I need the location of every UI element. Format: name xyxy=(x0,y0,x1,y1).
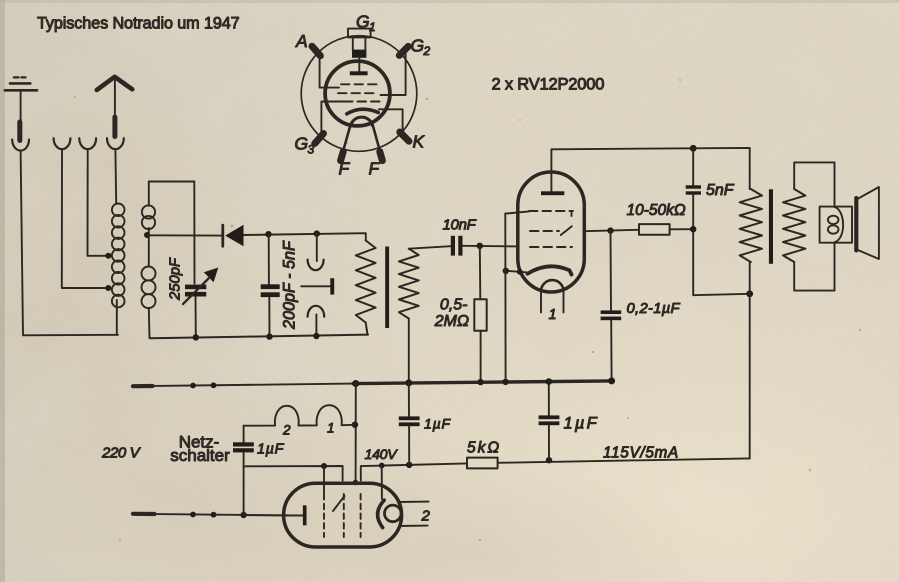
speaker diaphragm bar xyxy=(854,198,858,250)
svg-text:1: 1 xyxy=(327,421,335,436)
svg-text:10-50kΩ: 10-50kΩ xyxy=(627,202,686,219)
socket cup 4 antenna xyxy=(107,138,124,149)
capacitor C5 0.2-1uF xyxy=(601,231,622,381)
junction rail phones xyxy=(313,333,319,339)
label 140V xyxy=(365,447,399,463)
wire earth down xyxy=(21,151,118,335)
junction filament top xyxy=(379,463,385,469)
socket cup 3 xyxy=(79,138,96,149)
socket pin F2 xyxy=(380,152,383,161)
C1 arrow xyxy=(183,268,218,305)
V1 cathode arc xyxy=(528,266,572,274)
junction C8 xyxy=(546,457,552,463)
svg-text:F: F xyxy=(369,159,381,179)
bus junction 2 xyxy=(211,382,217,388)
ground symbol xyxy=(5,77,37,121)
T2 core bar xyxy=(769,189,773,263)
label 250pF xyxy=(168,257,184,301)
V1 cathode junction b xyxy=(517,269,523,275)
svg-text:K: K xyxy=(413,132,426,152)
socket pin F1 xyxy=(341,152,344,161)
V2 filament circle xyxy=(385,505,402,522)
speaker cone xyxy=(858,187,879,259)
socket label F1 xyxy=(339,159,351,179)
svg-text:0,2-1µF: 0,2-1µF xyxy=(627,301,681,317)
V2 lead lower xyxy=(400,525,428,527)
V2 label 2 xyxy=(421,508,431,525)
V1 label 1 xyxy=(549,307,557,323)
svg-text:1µF: 1µF xyxy=(257,442,285,458)
mains junction C6 xyxy=(240,512,246,518)
socket pin G3 xyxy=(315,134,324,144)
wire tap to diode xyxy=(147,234,223,236)
capacitor C3 10nF xyxy=(451,236,463,256)
mains lower wire xyxy=(133,514,303,516)
socket label A xyxy=(295,31,308,51)
socket grid G3 dashes xyxy=(341,83,377,85)
tuning coil L2 upper xyxy=(142,182,155,230)
V2 anode bar xyxy=(303,505,307,525)
V2 anode lead xyxy=(247,514,303,516)
resistor R1 0.5-2M xyxy=(474,246,486,382)
antenna plug pin xyxy=(112,117,117,137)
ground plug pin xyxy=(17,122,22,141)
svg-text:1: 1 xyxy=(549,307,557,323)
bus junction heater xyxy=(352,380,359,387)
wire 140V left xyxy=(244,466,343,481)
headphone jack upper contact xyxy=(308,234,324,271)
label 5k xyxy=(467,440,501,457)
label C6 xyxy=(257,442,285,458)
capacitor C8 1uF xyxy=(539,382,560,461)
wire diode to transformer xyxy=(244,233,366,240)
socket cup 2 xyxy=(54,138,71,149)
svg-text:G: G xyxy=(356,12,370,32)
label 10nF xyxy=(443,217,477,234)
svg-text:A: A xyxy=(295,31,308,51)
V1 cathode lead xyxy=(506,271,528,273)
wire G3-cathode down xyxy=(504,214,506,382)
capacitor C6 1uF xyxy=(233,426,254,515)
socket filament arc xyxy=(351,117,373,126)
title text xyxy=(37,15,240,33)
socket pin G2 xyxy=(399,46,408,55)
V2 lead upper xyxy=(399,501,429,503)
socket anode bar xyxy=(350,58,368,76)
label 5nF xyxy=(706,182,735,199)
svg-text:5nF: 5nF xyxy=(706,182,735,199)
label bump2 xyxy=(282,423,291,438)
T1 primary winding xyxy=(356,241,376,335)
socket filament legs xyxy=(343,124,381,153)
bus junction C8 xyxy=(546,378,553,385)
wire antenna to coil xyxy=(114,150,117,204)
V1 anode xyxy=(541,149,564,195)
socket label K xyxy=(413,132,426,152)
label 200pF-5nF xyxy=(281,240,299,330)
heater envelope junction xyxy=(353,480,359,486)
svg-text:F: F xyxy=(339,159,351,179)
label R1 xyxy=(434,297,469,331)
variable capacitor C1 250pF plates xyxy=(185,285,206,337)
T2 primary bottom junction xyxy=(746,290,753,297)
tube V2 envelope xyxy=(284,483,402,547)
label C8 xyxy=(564,415,599,433)
wire 115V xyxy=(498,458,750,462)
svg-text:3: 3 xyxy=(308,143,315,157)
V1 filament arc xyxy=(541,280,564,290)
svg-text:Typisches Notradio um 1947: Typisches Notradio um 1947 xyxy=(37,15,240,33)
speaker coil box xyxy=(820,207,852,243)
V2 filament arc xyxy=(378,500,385,527)
svg-text:2MΩ: 2MΩ xyxy=(434,313,469,330)
tuning coil L2 wire mid xyxy=(148,228,150,267)
paper specks xyxy=(74,79,861,541)
wire cup3 to tap xyxy=(88,150,106,256)
V2 grid dashes 3 xyxy=(360,494,362,537)
svg-text:schalter: schalter xyxy=(170,446,230,465)
capacitor C7 1uF xyxy=(399,383,420,465)
wire T2 sec top xyxy=(794,162,834,206)
svg-text:1µF: 1µF xyxy=(424,416,451,432)
heater bumps junction xyxy=(352,422,358,428)
svg-text:115V/5mA: 115V/5mA xyxy=(603,445,679,462)
junction rail C1 xyxy=(193,334,199,340)
socket grid G1 dashes xyxy=(344,101,380,103)
tube type label 2 x RV12P2000 xyxy=(492,76,605,94)
label Netzschalter xyxy=(170,433,230,466)
main bus thin part xyxy=(133,384,353,387)
junction rail C2 xyxy=(266,333,272,339)
svg-text:2 x RV12P2000: 2 x RV12P2000 xyxy=(492,76,605,94)
junction C7 xyxy=(406,462,412,468)
T2 primary winding xyxy=(740,189,762,262)
V2 grid dashes 2 xyxy=(343,494,345,537)
V1 grid G3 dashes xyxy=(505,211,573,216)
capacitor C4 5nF xyxy=(686,148,750,295)
diode D1 xyxy=(223,225,244,246)
svg-text:2: 2 xyxy=(421,508,431,525)
svg-text:1: 1 xyxy=(369,20,376,34)
socket label G1 xyxy=(356,12,376,35)
svg-text:G: G xyxy=(411,36,425,56)
junction diode C2 xyxy=(265,231,271,237)
wire C3 to grid xyxy=(463,245,519,248)
anode wire top xyxy=(551,148,749,189)
label C7 xyxy=(424,416,451,432)
wire filament top down xyxy=(381,466,383,500)
socket label G3 xyxy=(295,134,315,157)
socket tube inner circle xyxy=(325,61,390,126)
label C5 xyxy=(627,301,681,317)
wire g1 V2 down xyxy=(323,466,325,493)
screen wire xyxy=(584,230,639,231)
socket label G2 xyxy=(411,36,431,59)
mains junction 4 xyxy=(211,512,217,518)
junction anode 5nF xyxy=(690,145,697,152)
socket outer circle xyxy=(301,36,417,152)
tube V1 envelope xyxy=(518,172,585,292)
wire T2 sec bottom xyxy=(794,243,834,291)
socket wire A to anode xyxy=(320,55,339,88)
junction g1 V2 xyxy=(321,463,327,469)
tap junction upper xyxy=(105,253,111,259)
junction diode phones xyxy=(314,230,320,236)
label 220V xyxy=(101,445,142,462)
svg-text:220 V: 220 V xyxy=(101,445,142,462)
tuning coil L2 lower xyxy=(142,267,156,339)
main bus stub xyxy=(133,384,153,388)
label bump1 xyxy=(327,421,335,436)
V2 grid dashes 1 xyxy=(323,494,325,537)
coil tap junction xyxy=(144,232,150,238)
label 115V-5mA xyxy=(603,445,679,462)
T1 secondary winding xyxy=(399,249,419,383)
T1 core bar xyxy=(385,247,389,329)
svg-text:5kΩ: 5kΩ xyxy=(467,440,501,457)
socket grid G2 dashes xyxy=(338,92,374,94)
label 10-50k xyxy=(627,202,686,219)
bus junction R1 xyxy=(477,379,483,385)
antenna coil L1 xyxy=(112,204,125,335)
wire T2 primary down xyxy=(749,262,751,458)
svg-text:0,5-: 0,5- xyxy=(440,297,468,314)
svg-text:200pF - 5nF: 200pF - 5nF xyxy=(281,240,299,330)
junction screen C5 xyxy=(607,227,613,233)
T2 secondary winding xyxy=(783,189,805,262)
svg-text:10nF: 10nF xyxy=(443,217,477,234)
socket pin A xyxy=(312,46,320,56)
heater wire vertical xyxy=(355,384,357,482)
svg-text:2: 2 xyxy=(282,423,291,438)
socket label F2 xyxy=(369,159,381,179)
bus junction 1 xyxy=(190,383,196,389)
mains junction 3 xyxy=(190,512,196,518)
bus junction V1k xyxy=(502,379,508,385)
V2 grid diagonal xyxy=(333,496,345,511)
tuned circuit top wire xyxy=(149,182,195,284)
resistor R2 10-50k xyxy=(639,224,693,235)
antenna symbol xyxy=(97,77,132,116)
svg-text:250pF: 250pF xyxy=(168,257,184,301)
socket wire G2 xyxy=(381,54,406,96)
socket G1 top cap tab xyxy=(348,29,371,58)
headphone jack lower contact xyxy=(308,306,325,336)
wire 140V right xyxy=(361,463,467,480)
main bus thick part xyxy=(353,381,612,384)
junction R2 5nF xyxy=(690,226,696,232)
V1 grid G2 dashes xyxy=(530,226,572,235)
junction grid R1 xyxy=(477,243,483,249)
svg-text:G: G xyxy=(295,134,309,154)
speaker coil turns xyxy=(828,207,843,242)
bus junction C5 end xyxy=(608,377,615,384)
heater bumps xyxy=(244,405,355,426)
socket cup 1 earth xyxy=(12,140,29,151)
socket wire K xyxy=(379,109,403,132)
V1 cathode junction a xyxy=(503,268,509,274)
tap junction lower xyxy=(105,285,111,291)
svg-text:140V: 140V xyxy=(365,447,399,463)
headphone plug xyxy=(301,278,334,294)
bus junction T1sec xyxy=(405,379,412,386)
socket pin K xyxy=(400,132,409,141)
mains lower stub xyxy=(133,512,155,516)
V1 grid G1 dashes xyxy=(530,246,572,248)
socket wire G3 xyxy=(321,102,344,135)
svg-text:2: 2 xyxy=(423,44,431,58)
svg-text:1µF: 1µF xyxy=(564,415,599,433)
detector ground rail xyxy=(151,335,368,339)
V1 filament legs xyxy=(541,289,564,313)
wire T1 to C3 xyxy=(409,246,451,249)
capacitor C2 200pF-5nF xyxy=(261,234,280,336)
wire cup2 to tap xyxy=(62,150,106,288)
resistor R3 5k xyxy=(467,458,498,469)
socket cathode arc xyxy=(347,109,378,114)
